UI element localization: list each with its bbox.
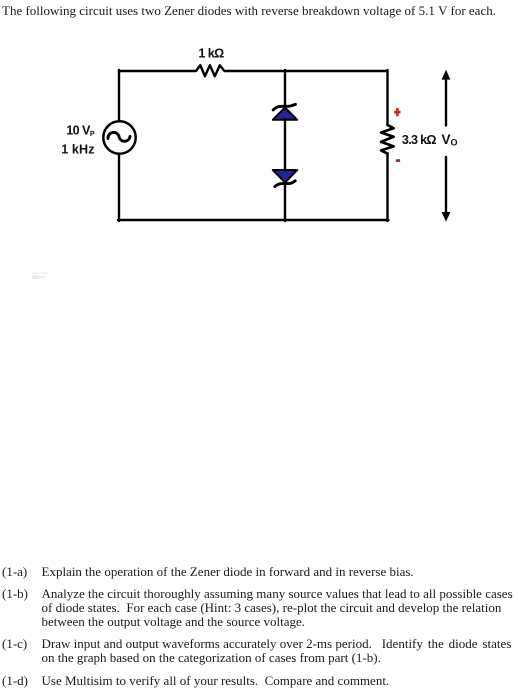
wire middle upper — [284, 70, 286, 108]
wire right upper — [386, 70, 388, 125]
svg-text:1 kΩ: 1 kΩ — [198, 46, 224, 60]
question 1-c — [0, 636, 1, 638]
svg-text:1 kHz: 1 kHz — [61, 143, 94, 157]
title paragraph — [2, 4, 496, 18]
wire left lower — [118, 154, 120, 221]
source sine symbol — [108, 132, 130, 141]
minus polarity mark — [396, 159, 400, 162]
svg-text:10 VP: 10 VP — [66, 124, 95, 138]
zener diode D1 cathode bar — [273, 104, 295, 110]
wire top with resistor R1 zigzag — [119, 65, 388, 76]
zener diode D1 triangle — [273, 108, 297, 120]
svg-text:3.3 kΩ: 3.3 kΩ — [402, 133, 437, 147]
source V1 circle — [103, 121, 135, 153]
wire middle lower — [284, 183, 286, 221]
zener diode D2 cathode bar — [275, 181, 295, 187]
wire right lower — [386, 154, 388, 221]
plus polarity mark — [394, 108, 400, 116]
wire bottom — [118, 219, 389, 221]
question 1-d — [0, 673, 1, 675]
question 1-a — [0, 564, 1, 566]
resistor R2 zigzag — [381, 125, 394, 154]
arrow Vo up — [445, 79, 447, 126]
wire left upper — [118, 70, 120, 121]
wire middle between diodes — [284, 119, 286, 171]
question 1-b — [0, 586, 1, 588]
arrow Vo down — [445, 157, 447, 213]
faint smudge artifact — [32, 272, 48, 274]
zener diode D2 triangle — [273, 170, 297, 183]
svg-text:VO: VO — [442, 132, 458, 148]
